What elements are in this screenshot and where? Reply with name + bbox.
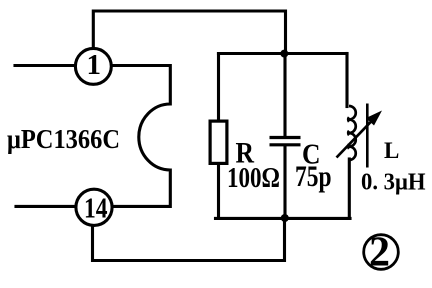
node junction top [280,50,288,58]
wire inductor L top lead [345,54,348,107]
wire inductor L bottom lead [348,159,351,218]
svg-text:L: L [384,138,399,163]
wire resistor R bottom lead [217,165,220,219]
svg-text:2: 2 [369,230,390,276]
inductor L core line [366,104,369,168]
svg-text:100Ω: 100Ω [227,163,280,194]
svg-text:0. 3μH: 0. 3μH [361,170,426,196]
wire top feedback loop [93,11,285,54]
inductor L coil [348,106,356,160]
wire capacitor C top lead [283,54,286,137]
wire bottom rail of tank circuit [216,217,351,220]
capacitor C [270,138,301,145]
figure number circled 2 [364,230,399,276]
wire pin 14 left lead [16,205,75,208]
svg-text:μPC1366C: μPC1366C [7,124,120,154]
pin 1 [75,48,111,84]
wire top rail of tank circuit [219,52,348,55]
wire capacitor C bottom lead [283,146,286,218]
svg-text:1: 1 [87,49,102,81]
node junction bottom [281,214,289,222]
svg-text:14: 14 [84,193,108,225]
IC U1 body outline with notch [114,66,171,207]
wire bottom return to pin 14 [93,218,285,260]
pin 14 [76,189,112,225]
inductor L adjustment arrow [337,111,383,158]
svg-text:75p: 75p [295,160,332,193]
resistor R [210,121,227,163]
wire pin 1 left lead [15,64,75,67]
wire resistor R top lead [217,54,220,121]
